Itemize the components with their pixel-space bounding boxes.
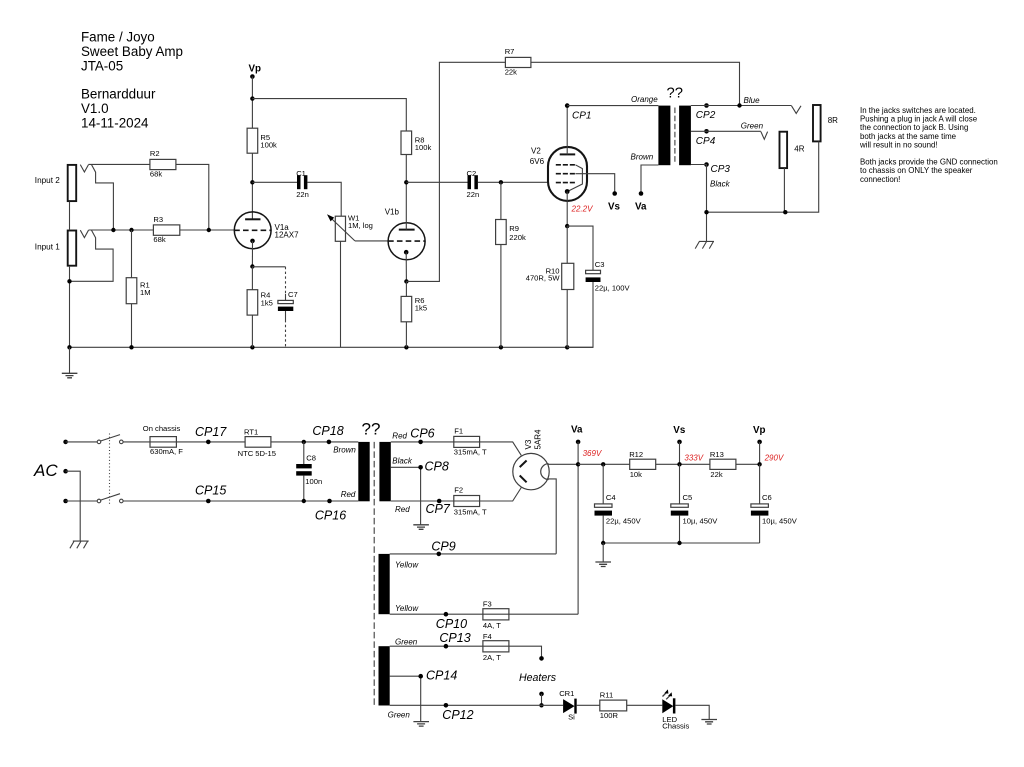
capacitor C3 <box>567 226 630 347</box>
wire V1a cathode <box>251 241 253 267</box>
svg-text:Green: Green <box>395 638 418 647</box>
wire Black to speaker ground bus <box>691 165 707 242</box>
svg-text:12AX7: 12AX7 <box>275 230 300 239</box>
wire LED to ground <box>675 705 709 719</box>
svg-text:F3: F3 <box>483 599 492 608</box>
ground PSU (earth) <box>595 543 611 567</box>
svg-text:Yellow: Yellow <box>395 604 419 613</box>
resistor R12 <box>629 450 656 479</box>
svg-text:100R: 100R <box>600 711 619 720</box>
svg-text:Brown: Brown <box>333 446 356 455</box>
wire C1 to W1 <box>307 182 341 216</box>
resistor R2 <box>150 149 176 178</box>
wire AC live to switch <box>66 441 98 443</box>
fuse F4 <box>483 632 509 662</box>
svg-text:100k: 100k <box>260 141 277 150</box>
node CP15 <box>195 483 226 503</box>
node CP17 <box>195 425 227 444</box>
svg-text:CP6: CP6 <box>410 426 434 440</box>
resistor R13 <box>710 450 736 479</box>
wire B+ rail to R12 <box>578 463 630 465</box>
transformer PT 6.3V winding (green) <box>379 646 390 705</box>
node Vs (screen supply) <box>673 425 686 466</box>
resistor R9 <box>496 220 526 245</box>
svg-text:Vs: Vs <box>608 201 621 212</box>
wire feedback loop to R7 <box>406 62 505 281</box>
transformer OT core (dashed) <box>674 108 676 164</box>
node CP13 <box>439 631 470 649</box>
svg-text:NTC 5D-15: NTC 5D-15 <box>238 449 276 458</box>
wire HT top to F1 <box>391 441 454 443</box>
node CP1 <box>565 103 592 121</box>
svg-text:V1b: V1b <box>385 208 400 217</box>
wire R11 to LED <box>627 704 663 706</box>
wire F2 to V3 anode <box>480 488 522 502</box>
svg-text:CP14: CP14 <box>426 669 457 683</box>
wire 6.3V centre tap CP14 <box>390 676 421 721</box>
node bus junctions <box>704 210 708 214</box>
svg-text:333V: 333V <box>684 454 703 463</box>
wire V2 anode to CP1 <box>566 106 568 155</box>
node heater terminal b <box>539 692 544 708</box>
node junction R1 top <box>129 228 133 232</box>
switch S1a <box>97 435 123 444</box>
capacitor C7 (optional, dashed) <box>252 267 297 348</box>
svg-text:Fame / Joyo: Fame / Joyo <box>81 30 155 45</box>
pentode V2 6V6 <box>530 147 587 201</box>
svg-text:Black: Black <box>392 457 413 466</box>
wire R4 verticals <box>251 267 253 348</box>
jack 8R contact <box>792 106 802 114</box>
svg-text:will result in no sound!: will result in no sound! <box>859 140 938 149</box>
node C8 top junction <box>302 440 306 444</box>
wire Brown to Va point <box>641 165 658 194</box>
svg-text:68k: 68k <box>150 169 162 178</box>
svg-text:AC: AC <box>33 461 58 480</box>
svg-text:CP1: CP1 <box>572 110 591 121</box>
svg-text:315mA, T: 315mA, T <box>454 448 487 457</box>
fuse F2 <box>454 486 487 517</box>
svg-text:10µ, 450V: 10µ, 450V <box>683 517 719 526</box>
svg-text:22n: 22n <box>467 190 480 199</box>
wire CR1 to R11 <box>577 704 600 706</box>
node CP9 <box>431 540 455 557</box>
node cathode junction <box>250 264 254 268</box>
wire F4 to heater terminal <box>509 646 542 658</box>
node C8 bottom junction <box>302 499 306 503</box>
svg-text:C4: C4 <box>606 493 616 502</box>
node C1 junction <box>250 180 254 184</box>
ground LED (earth) <box>701 720 717 725</box>
wire PSU ground rail <box>603 542 759 544</box>
node CP16 <box>315 499 346 523</box>
svg-text:Blue: Blue <box>744 96 761 105</box>
jack Input 1 <box>35 230 113 281</box>
svg-text:On chassis: On chassis <box>143 424 181 433</box>
svg-text:C6: C6 <box>762 493 772 502</box>
svg-text:4R: 4R <box>794 145 804 154</box>
node heater terminal a <box>539 656 544 661</box>
svg-text:Orange: Orange <box>631 95 658 104</box>
svg-text:JTA-05: JTA-05 <box>81 59 123 74</box>
wire R1 verticals <box>131 230 133 347</box>
svg-text:C3: C3 <box>595 260 605 269</box>
svg-text:V2: V2 <box>531 147 541 156</box>
svg-text:V1.0: V1.0 <box>81 101 109 116</box>
svg-text:Yellow: Yellow <box>395 560 419 569</box>
svg-text:Vs: Vs <box>673 425 686 436</box>
node CP4 <box>696 129 716 147</box>
svg-text:Vp: Vp <box>249 63 262 74</box>
svg-text:CP15: CP15 <box>195 483 226 497</box>
node Va junction <box>576 462 580 466</box>
svg-text:Red: Red <box>341 490 356 499</box>
ground AC (chassis) <box>70 541 89 548</box>
node CP14 <box>418 669 457 683</box>
node jack1 sleeve junction <box>67 279 71 283</box>
svg-text:??: ?? <box>667 85 683 101</box>
wire V2 cathode <box>566 192 568 227</box>
ground CP8 (earth) <box>413 525 429 530</box>
LED indicator <box>662 689 689 730</box>
wire V1b anode/cathode <box>405 155 407 282</box>
annotation text block <box>859 106 998 184</box>
node R9 junction <box>499 180 503 184</box>
wire W1 wiper to V1b <box>355 240 388 242</box>
node CP10 <box>436 612 467 631</box>
resistor R1 <box>126 278 150 304</box>
svg-text:C2: C2 <box>467 169 477 178</box>
svg-text:Input 2: Input 2 <box>35 176 60 185</box>
wire R13 to Vp <box>736 463 760 465</box>
wire R12 to Vs <box>656 463 710 465</box>
svg-text:CP8: CP8 <box>425 459 449 473</box>
svg-text:connection!: connection! <box>860 175 900 184</box>
node CP3 <box>704 162 730 175</box>
svg-text:CP7: CP7 <box>426 502 451 516</box>
svg-text:CP17: CP17 <box>195 425 227 439</box>
svg-text:22k: 22k <box>710 470 722 479</box>
svg-text:CP12: CP12 <box>442 708 473 722</box>
svg-text:315mA, T: 315mA, T <box>454 507 487 516</box>
svg-text:Vp: Vp <box>753 425 766 436</box>
wire Vp vertical <box>251 77 253 220</box>
wire R9 verticals <box>500 182 502 347</box>
svg-text:??: ?? <box>362 420 381 439</box>
svg-text:CP13: CP13 <box>439 631 470 645</box>
wire 6.3V top to F4 <box>390 645 483 647</box>
ground input (earth) <box>62 347 78 378</box>
wire R7 to output tap <box>531 62 740 105</box>
capacitor C2 <box>406 169 479 199</box>
node CP8 <box>418 459 449 473</box>
node CP12 <box>442 703 473 722</box>
node CP18 <box>312 424 343 444</box>
resistor R6 <box>401 296 427 322</box>
node PSU rail junctions <box>601 541 605 545</box>
wire AC earth <box>66 471 81 541</box>
node R10/C3 junction <box>565 224 569 228</box>
resistor R4 <box>247 290 273 315</box>
ground CP14 (earth) <box>413 722 429 727</box>
svg-text:C1: C1 <box>296 169 306 178</box>
transformer PT 5V winding (yellow) <box>379 554 390 614</box>
triode V1a <box>234 212 299 249</box>
svg-text:Red: Red <box>392 432 407 441</box>
wire F3 to Va line <box>509 613 578 615</box>
svg-text:R13: R13 <box>710 450 724 459</box>
svg-text:1k5: 1k5 <box>415 304 427 313</box>
node junction R2/R3 <box>207 228 211 232</box>
svg-text:F2: F2 <box>454 486 463 495</box>
transformer OT primary winding <box>658 106 670 166</box>
thermistor RT1 <box>238 427 276 458</box>
switch gang link (dotted) <box>109 434 111 506</box>
svg-text:CR1: CR1 <box>559 689 574 698</box>
svg-text:CP2: CP2 <box>696 110 716 121</box>
capacitor C5 <box>671 464 718 543</box>
triode V1b <box>385 208 425 260</box>
svg-text:100k: 100k <box>415 143 432 152</box>
svg-text:RT1: RT1 <box>244 427 258 436</box>
node C2 junction <box>404 180 408 184</box>
resistor R5 <box>247 128 277 153</box>
transformer PT HT secondary winding <box>379 442 390 501</box>
node Vp (preamp supply) <box>753 425 766 466</box>
svg-text:CP9: CP9 <box>431 540 455 554</box>
svg-text:Chassis: Chassis <box>662 721 689 730</box>
resistor R7 <box>505 47 531 77</box>
svg-text:22µ, 100V: 22µ, 100V <box>595 284 631 293</box>
ground speaker (chassis) <box>695 241 714 248</box>
svg-text:22µ, 450V: 22µ, 450V <box>606 517 642 526</box>
svg-text:Input 1: Input 1 <box>35 243 60 252</box>
jack 4R <box>780 132 805 168</box>
wire Vp to R8 <box>252 99 406 131</box>
svg-text:R11: R11 <box>600 691 613 700</box>
svg-text:220k: 220k <box>509 233 526 242</box>
transformer OT secondary winding <box>679 106 691 166</box>
svg-text:R3: R3 <box>153 215 163 224</box>
node junction step2 <box>111 228 115 232</box>
resistor R3 <box>153 215 179 244</box>
capacitor C8 <box>296 442 322 501</box>
svg-text:22k: 22k <box>505 68 517 77</box>
wire R10 verticals <box>566 226 568 347</box>
svg-text:10k: 10k <box>630 470 642 479</box>
wire 4R bottom <box>783 168 785 212</box>
resistor R10 <box>526 263 574 289</box>
title block <box>81 30 183 131</box>
rectifier V3 5AR4 <box>513 429 549 490</box>
svg-text:C8: C8 <box>306 453 316 462</box>
node rail dots <box>67 345 71 349</box>
svg-text:CP18: CP18 <box>312 424 343 438</box>
potentiometer W1 <box>327 213 373 241</box>
fuse 630mA F <box>143 424 183 456</box>
wire RT1 to transformer <box>271 441 358 443</box>
wire jack sleeve chain <box>69 202 71 231</box>
fuse F1 <box>454 427 487 457</box>
svg-text:Green: Green <box>741 121 764 130</box>
wire F1 to V3 anode <box>480 442 522 456</box>
wire CP1 to OT primary (Orange) <box>567 105 658 107</box>
capacitor C6 <box>751 464 798 543</box>
svg-text:CP4: CP4 <box>696 136 716 147</box>
svg-text:F4: F4 <box>483 632 492 641</box>
svg-text:8R: 8R <box>828 116 838 125</box>
svg-text:22.2V: 22.2V <box>571 205 594 214</box>
svg-text:Red: Red <box>395 505 410 514</box>
svg-text:1M: 1M <box>140 288 151 297</box>
wire AC neutral to switch <box>66 500 98 502</box>
svg-text:5AR4: 5AR4 <box>534 429 543 450</box>
resistor R11 <box>600 691 627 721</box>
wire C2 to V2 grid <box>478 181 548 183</box>
svg-text:Black: Black <box>710 180 731 189</box>
wire V3 output to Va <box>548 463 578 465</box>
transformer PT primary winding <box>358 442 369 501</box>
node CP2 <box>696 103 716 121</box>
wire R3 to V1a grid <box>180 229 234 231</box>
svg-text:Brown: Brown <box>631 153 654 162</box>
wire HT bottom to F2 <box>391 500 454 502</box>
svg-text:290V: 290V <box>764 454 784 463</box>
wire V2 screen to Vs point <box>575 174 614 194</box>
jack 8R <box>813 105 838 141</box>
svg-text:V3: V3 <box>524 439 533 449</box>
svg-text:2A, T: 2A, T <box>483 653 501 662</box>
svg-text:68k: 68k <box>153 235 165 244</box>
svg-text:1k5: 1k5 <box>261 298 273 307</box>
wire 5V bottom to F3 <box>390 613 483 615</box>
svg-text:Si: Si <box>568 713 575 722</box>
node Vs measure point <box>608 191 621 212</box>
wire ground rail (top section) <box>70 346 594 348</box>
wire Green (4R output) <box>691 130 761 132</box>
jack 4R contact <box>761 132 768 140</box>
wire AC neutral to transformer <box>123 500 358 502</box>
svg-text:100n: 100n <box>305 477 322 486</box>
svg-text:CP16: CP16 <box>315 508 346 522</box>
wire R2 to R3 line <box>176 164 209 230</box>
svg-text:R12: R12 <box>629 450 643 459</box>
svg-text:R9: R9 <box>509 224 519 233</box>
wire V3 filament to CP9 <box>547 479 556 554</box>
node C4 junction <box>601 462 605 466</box>
wire input2 to R2 <box>89 163 150 165</box>
svg-text:CP3: CP3 <box>711 164 731 175</box>
svg-text:Sweet Baby Amp: Sweet Baby Amp <box>81 44 183 59</box>
svg-text:10µ, 450V: 10µ, 450V <box>762 517 798 526</box>
wire Va vertical (down to F3) <box>577 442 579 614</box>
capacitor C1 <box>252 169 308 199</box>
svg-text:14-11-2024: 14-11-2024 <box>81 116 149 131</box>
svg-text:C7: C7 <box>288 290 298 299</box>
node CP6 <box>410 426 434 444</box>
wire HT centre tap CP8 <box>391 467 421 524</box>
fuse F3 <box>483 599 509 630</box>
svg-text:Va: Va <box>635 201 647 212</box>
wire fuse to RT1 <box>176 441 245 443</box>
diode CR1 <box>559 689 577 721</box>
svg-text:Va: Va <box>571 424 583 435</box>
svg-text:Bernardduur: Bernardduur <box>81 87 156 102</box>
svg-text:369V: 369V <box>583 449 602 458</box>
wire W1 bottom <box>340 241 342 347</box>
svg-text:1M, log: 1M, log <box>348 221 373 230</box>
svg-text:630mA, F: 630mA, F <box>150 447 183 456</box>
wire switch to fuse <box>123 441 150 443</box>
transformer PT core (dashed) <box>373 442 375 706</box>
node feedback junction <box>404 279 408 283</box>
wire Blue (8R output) <box>691 105 792 107</box>
wire 6.3V bottom to CR1 <box>390 704 563 706</box>
node Vp (top) <box>249 63 262 78</box>
svg-text:Green: Green <box>388 710 411 719</box>
svg-text:R2: R2 <box>150 149 160 158</box>
node CP7 <box>426 499 451 517</box>
node Va measure point <box>635 191 647 212</box>
wire CP9 (5V filament top) <box>390 553 557 555</box>
svg-text:22n: 22n <box>296 190 309 199</box>
capacitor C4 <box>595 464 642 543</box>
svg-text:6V6: 6V6 <box>530 157 545 166</box>
wire R6 verticals <box>405 281 407 347</box>
svg-text:4A, T: 4A, T <box>483 621 501 630</box>
jack Input 2 <box>35 165 114 230</box>
switch S1b <box>97 494 123 503</box>
node Vp junction <box>250 96 254 100</box>
resistor R8 <box>401 131 431 155</box>
node feedback tap junction <box>737 103 741 107</box>
svg-text:F1: F1 <box>454 427 463 436</box>
svg-text:Heaters: Heaters <box>519 672 557 684</box>
svg-text:CP10: CP10 <box>436 617 467 631</box>
wire jack1 to R3 <box>89 229 154 231</box>
svg-text:470R, 5W: 470R, 5W <box>526 274 561 283</box>
svg-text:R7: R7 <box>505 47 515 56</box>
wire speaker ground bus <box>707 141 819 212</box>
node Va (B+) <box>571 424 583 444</box>
node AC terminals <box>33 440 68 504</box>
svg-text:C5: C5 <box>683 493 693 502</box>
